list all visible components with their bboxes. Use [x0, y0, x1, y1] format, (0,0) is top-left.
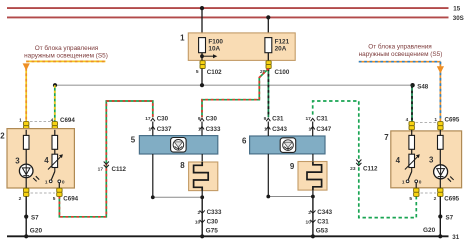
svg-text:6: 6 — [242, 136, 247, 145]
svg-text:1: 1 — [45, 180, 48, 186]
lamp module 5 box — [131, 136, 218, 154]
svg-text:C31: C31 — [317, 219, 329, 226]
wire lamp9 to junction — [312, 190, 314, 196]
svg-text:4: 4 — [406, 117, 409, 123]
wire C695 pin2 to ground (black) — [439, 196, 441, 236]
wire into box6 left — [267, 122, 269, 137]
connector row C31 pin17 — [305, 116, 328, 123]
svg-text:3: 3 — [429, 156, 434, 165]
S5 annotation text right — [359, 43, 443, 59]
resistor column wire block7 — [411, 130, 413, 154]
wire C100 to C31 pin9 (green/black) — [267, 69, 269, 118]
headlamp unit 7 box — [384, 131, 461, 188]
node at C102 wire junction — [200, 83, 204, 87]
connector C695 top pads pin4 — [409, 122, 414, 130]
ground G20 right — [423, 227, 442, 239]
svg-text:7: 7 — [384, 133, 389, 142]
resistor in block7 dimmer column — [409, 135, 415, 149]
wire F100 internal — [201, 38, 203, 61]
svg-text:4: 4 — [396, 156, 401, 165]
svg-text:4: 4 — [44, 156, 49, 165]
wire bulb to pin2 block2 — [25, 178, 27, 189]
svg-text:C337: C337 — [157, 126, 172, 133]
connector C694 top pads pin4 — [52, 122, 57, 130]
svg-text:C333: C333 — [206, 126, 221, 133]
svg-text:G20: G20 — [30, 228, 43, 235]
power rail 15 — [7, 5, 461, 12]
svg-text:15: 15 — [453, 5, 460, 12]
connector row C31 pin9 — [264, 116, 284, 123]
svg-text:10A: 10A — [208, 45, 220, 52]
wire C694 pin2 to ground (black) — [25, 196, 27, 236]
svg-text:17: 17 — [98, 166, 104, 172]
svg-text:C343: C343 — [272, 126, 287, 133]
splice S7 right — [438, 214, 453, 221]
ground rail 31 — [7, 234, 460, 241]
lamp column wire block7 — [439, 130, 441, 165]
bulb E3 right — [429, 156, 454, 182]
svg-text:G20: G20 — [423, 227, 436, 234]
svg-text:наружным освещением (S5): наружным освещением (S5) — [359, 51, 443, 58]
ground G53 — [311, 228, 329, 239]
svg-text:3: 3 — [15, 157, 20, 166]
svg-text:2: 2 — [0, 131, 5, 140]
resistor in block2 lamp column — [23, 135, 29, 149]
connector C694 top pads pin1 — [24, 122, 29, 130]
switch in block2 — [45, 168, 65, 189]
lamp module 6 box — [242, 136, 325, 154]
connector C695 bottom pads pin5 — [414, 188, 419, 196]
svg-text:1: 1 — [434, 117, 437, 123]
connector row C343 pin2 bottom — [308, 209, 332, 216]
resistor column wire block2 — [54, 130, 56, 154]
svg-text:S7: S7 — [31, 215, 39, 222]
connector C695 top labels — [406, 116, 460, 123]
svg-text:1: 1 — [180, 34, 185, 43]
lamp 8 box — [180, 161, 217, 190]
wire F121 internal — [267, 38, 269, 61]
fuse F121 — [265, 38, 290, 53]
wire C694 pin5 to C30 pin17 (red/green) — [59, 101, 152, 217]
ground G75 — [200, 228, 218, 239]
svg-text:2: 2 — [19, 196, 22, 202]
svg-text:17: 17 — [305, 116, 311, 122]
svg-text:C102: C102 — [207, 69, 222, 76]
svg-text:9: 9 — [290, 162, 295, 171]
power rail 30S — [7, 15, 464, 22]
svg-text:5: 5 — [196, 69, 199, 75]
ground G20 left — [24, 228, 42, 239]
S5 annotation text left — [24, 44, 108, 59]
svg-text:C333: C333 — [207, 209, 222, 216]
svg-text:От блока управления: От блока управления — [368, 43, 432, 51]
wire to ground G53 — [312, 197, 314, 237]
junction line below box6 — [266, 195, 314, 199]
svg-text:23: 23 — [350, 166, 356, 172]
wire box6 right down through lamp 9 — [312, 154, 314, 162]
svg-text:C30: C30 — [157, 116, 169, 123]
lamp icon in box 6 — [280, 138, 296, 153]
wire to ground G75 — [201, 197, 203, 236]
resistor in block7 lamp column — [438, 135, 444, 149]
connector row C347 pin1 — [309, 126, 332, 133]
connector C112 right symbol — [350, 160, 378, 173]
svg-text:30S: 30S — [453, 15, 464, 22]
lamp 9 filament — [307, 162, 322, 191]
wire box5 right down through lamp 8 — [201, 154, 203, 163]
bulb E3 left — [15, 157, 39, 182]
svg-text:5: 5 — [53, 196, 56, 202]
svg-text:C112: C112 — [363, 165, 378, 172]
variable resistor R4 left — [44, 154, 63, 169]
svg-text:2: 2 — [434, 196, 437, 202]
svg-text:S48: S48 — [417, 83, 429, 90]
wire S5 right (orange/blue) — [359, 62, 444, 122]
svg-text:5: 5 — [409, 196, 412, 202]
connector row C30 pin17 — [145, 116, 168, 123]
splice S7 left — [24, 215, 39, 222]
wire bulb to pin2 block7 — [439, 179, 441, 189]
svg-text:5: 5 — [131, 136, 136, 145]
wire C100 to C30 pin9 (red/green) — [202, 69, 269, 118]
switch in block7 — [402, 168, 422, 189]
splice S48 — [410, 83, 428, 90]
connector C695 bottom pads pin2 — [438, 188, 443, 196]
connector row C30 pin9 — [198, 116, 218, 123]
wire feed F121 from rail 30S — [266, 15, 270, 38]
svg-text:31: 31 — [452, 234, 459, 241]
wire into box5 right — [201, 122, 203, 136]
svg-text:C112: C112 — [112, 166, 127, 173]
svg-text:S7: S7 — [446, 214, 454, 221]
fuse block U1 box — [180, 33, 295, 61]
svg-text:G75: G75 — [206, 228, 219, 235]
svg-text:9: 9 — [264, 116, 267, 122]
gray interconnect line — [55, 84, 413, 86]
connector row C31 pin10 bottom — [306, 219, 330, 226]
wire box5 left down — [152, 154, 154, 197]
lamp column wire block2 — [25, 130, 27, 164]
lamp icon in box 5 — [171, 138, 187, 153]
svg-text:20A: 20A — [275, 45, 287, 52]
headlamp unit 2 box — [0, 129, 74, 188]
connector C112 left symbol — [98, 162, 127, 174]
svg-text:C694: C694 — [60, 117, 75, 124]
node under F100 with arrow — [200, 54, 217, 58]
svg-text:C100: C100 — [275, 69, 290, 76]
svg-text:C31: C31 — [272, 116, 284, 123]
svg-text:17: 17 — [145, 116, 151, 122]
svg-text:C695: C695 — [445, 116, 460, 123]
svg-text:C694: C694 — [63, 196, 78, 203]
junction line below box5 — [151, 195, 204, 199]
svg-text:1: 1 — [19, 117, 22, 123]
connector C694 bottom pads pin2 — [24, 188, 29, 196]
svg-text:8: 8 — [180, 161, 185, 170]
wire lamp8 to junction — [201, 191, 203, 198]
svg-text:C30: C30 — [207, 219, 219, 226]
svg-text:C347: C347 — [316, 126, 331, 133]
svg-text:0: 0 — [62, 180, 65, 186]
connector C695 top pads pin1 — [438, 122, 443, 130]
wire S5 left (yellow/orange) — [23, 61, 106, 121]
connector row C30 pin10 bottom — [195, 219, 219, 226]
wire feed F100 from rail 15 — [200, 6, 204, 38]
connector row C333 pin2 bottom — [198, 209, 222, 216]
svg-text:наружным освещением (S5): наружным освещением (S5) — [24, 52, 108, 59]
lamp 9 box — [290, 162, 327, 191]
svg-text:От блока управления: От блока управления — [35, 44, 99, 52]
lamp 8 filament — [194, 162, 209, 191]
svg-text:C30: C30 — [206, 116, 218, 123]
connector C102 pads — [196, 61, 222, 76]
variable resistor R4 right — [396, 154, 420, 169]
connector C695 bottom labels — [409, 193, 459, 203]
wire into box6 right — [312, 122, 314, 137]
connector C100 pads — [260, 61, 290, 76]
connector C694 bottom labels — [19, 193, 79, 203]
wire C102 to gray bus — [201, 69, 203, 86]
wire C695 pin5 to C31 pin17 (green) — [313, 101, 417, 218]
connector C694 bottom pads pin5 — [57, 188, 62, 196]
connector row C337 pin1 — [148, 126, 172, 133]
svg-text:C695: C695 — [444, 196, 459, 203]
wire S48 to C695 pin4 (black/green) — [411, 85, 413, 122]
connector row C343 pin1 — [264, 126, 287, 133]
wire box6 left down — [267, 154, 269, 197]
node at gray line left — [53, 83, 57, 87]
resistor in block2 dimmer column — [52, 135, 58, 149]
svg-text:G53: G53 — [316, 228, 329, 235]
wire into box5 left — [152, 122, 154, 136]
connector C694 top labels — [19, 117, 75, 124]
svg-text:C31: C31 — [316, 116, 328, 123]
svg-text:1: 1 — [402, 180, 405, 186]
svg-text:C343: C343 — [317, 209, 332, 216]
wire gray bus to C694 pin4 (green/yellow) — [54, 85, 56, 122]
fuse F100 — [199, 38, 224, 53]
connector row C333 pin1 — [198, 126, 221, 133]
svg-text:0: 0 — [419, 180, 422, 186]
